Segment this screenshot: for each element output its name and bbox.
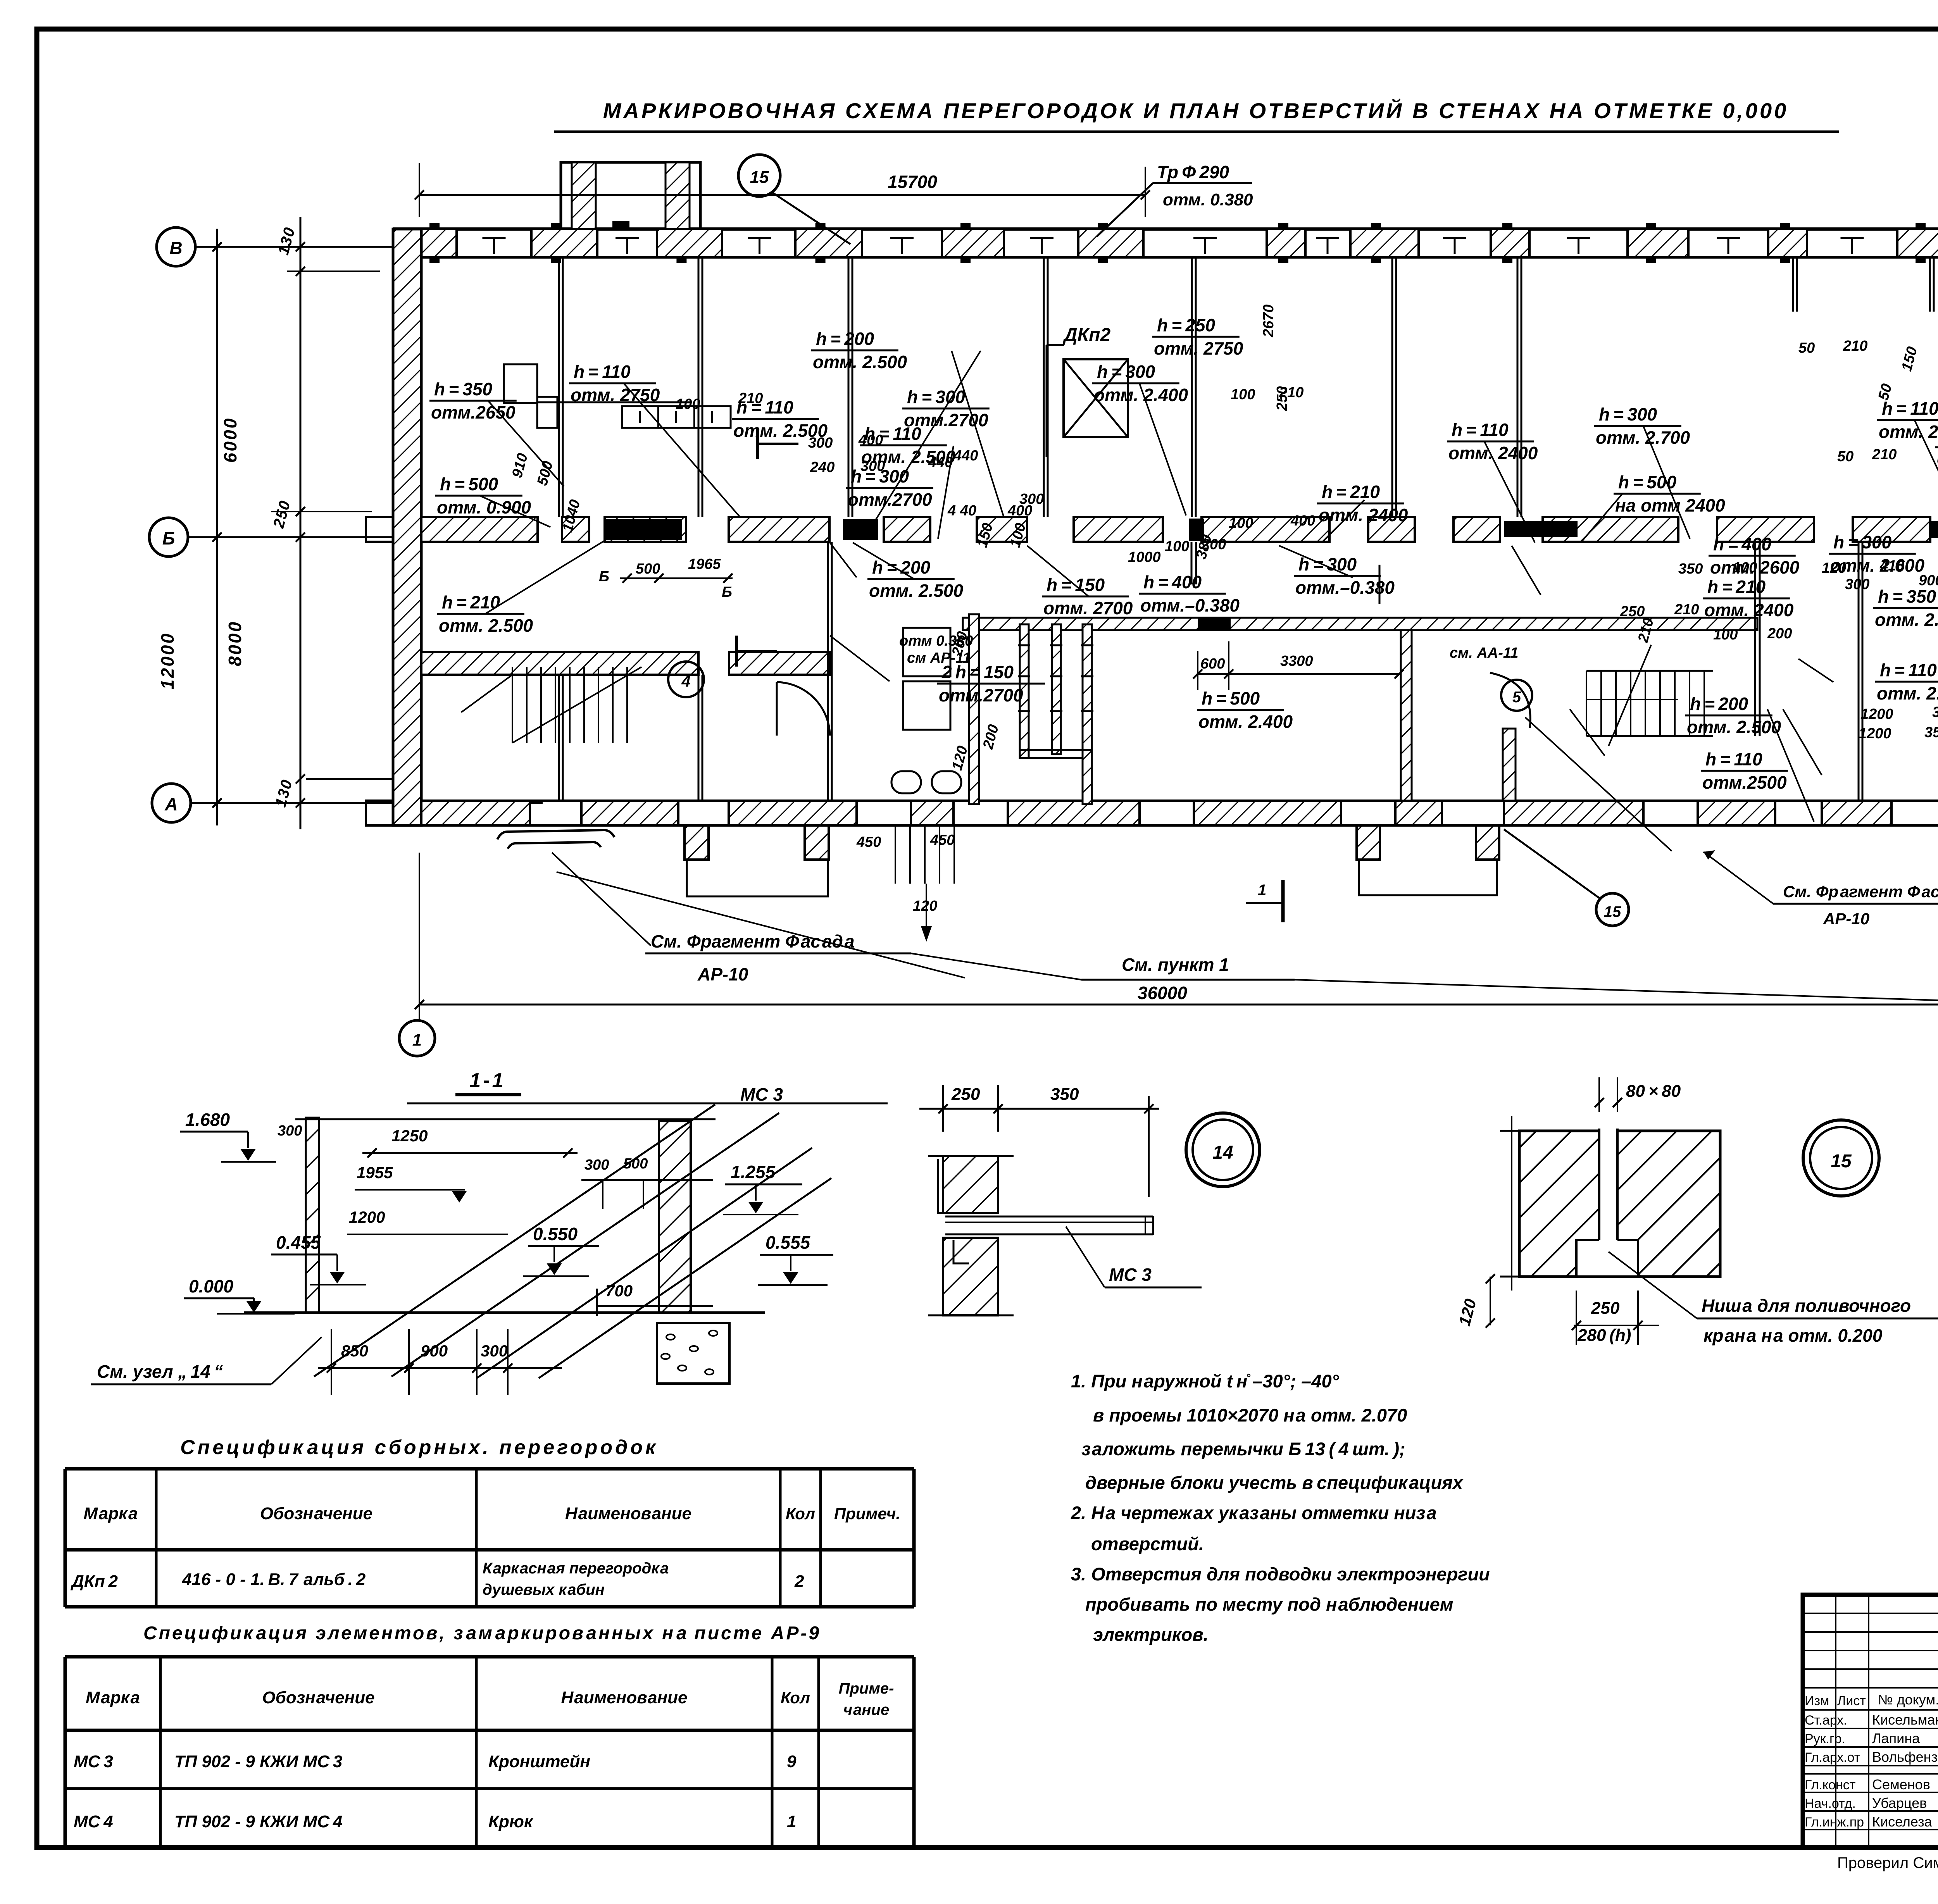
svg-text:на отм 2400: на отм 2400 [1615, 495, 1725, 515]
detail 14 angle clips [938, 1159, 953, 1213]
svg-text:210: 210 [1843, 338, 1867, 354]
svg-text:отм. 2.400: отм. 2.400 [1198, 712, 1293, 732]
wall pier x=1371 [531, 229, 597, 257]
axis circle Б [149, 518, 188, 557]
cabinet row (room 1) [622, 406, 731, 428]
partition stub x3080 [1191, 542, 1193, 584]
svg-text:Киселеза: Киселеза [1872, 1814, 1933, 1830]
left dimension lines [216, 229, 218, 825]
svg-text:см АР-11: см АР-11 [907, 650, 971, 666]
window mullion marks [483, 237, 506, 239]
svg-text:120: 120 [913, 898, 937, 914]
svg-text:отм. 2.700: отм. 2.700 [1596, 427, 1690, 448]
svg-text:0.555: 0.555 [766, 1232, 811, 1253]
svg-text:36000: 36000 [1138, 983, 1187, 1003]
svg-text:заложить перемычки Б 13 ( 4: заложить перемычки Б 13 ( 4 шт. ); [1081, 1439, 1405, 1459]
signature table grid [1803, 1613, 1938, 1614]
svg-text:12000: 12000 [157, 632, 178, 689]
crossed duct box [1064, 359, 1128, 437]
svg-text:700: 700 [605, 1282, 633, 1300]
wall pier x=1078 [418, 229, 457, 257]
svg-text:500: 500 [636, 561, 660, 577]
svg-text:440: 440 [953, 448, 978, 464]
svg-text:отм. 2.500: отм. 2.500 [439, 615, 533, 636]
svg-text:Спецификация элементов, зама: Спецификация элементов, замаркированных … [143, 1623, 821, 1644]
svg-text:МС 3: МС 3 [74, 1752, 113, 1771]
svg-text:h = 110: h = 110 [1880, 660, 1937, 680]
partition stub x3559 [1379, 565, 1381, 604]
svg-text:100: 100 [1713, 627, 1738, 643]
wall pier x=4895 [1897, 229, 1938, 257]
svg-text:Кол: Кол [781, 1689, 810, 1707]
svg-text:Изм: Изм [1805, 1694, 1829, 1708]
axis circle В [157, 227, 195, 266]
svg-text:80 × 80: 80 × 80 [1626, 1082, 1681, 1101]
svg-text:отм. 2.500: отм. 2.500 [869, 581, 964, 601]
svg-text:14: 14 [1212, 1142, 1233, 1163]
svg-text:отм. 2700: отм. 2700 [1043, 598, 1133, 618]
wall pier x=3268 [1267, 229, 1305, 257]
svg-text:отм. 2400: отм. 2400 [1704, 600, 1794, 620]
svg-text:отм. 0.900: отм. 0.900 [437, 497, 531, 517]
svg-text:1250: 1250 [391, 1127, 428, 1145]
entrance porch middle [1357, 825, 1380, 860]
svg-text:280 (h): 280 (h) [1577, 1326, 1631, 1345]
svg-text:3. Отверстия для подводки э: 3. Отверстия для подводки электроэнергии [1071, 1564, 1490, 1584]
circle 15 top [738, 155, 780, 196]
wall pier x=3846 [1491, 229, 1529, 257]
svg-text:АР-10: АР-10 [1823, 910, 1869, 928]
svg-text:15: 15 [750, 168, 769, 187]
svg-text:Б: Б [722, 584, 732, 600]
section mark 1 bottom plan [1281, 880, 1285, 922]
circle 15 bottom [1596, 893, 1629, 926]
svg-text:0.455: 0.455 [276, 1232, 321, 1253]
wall pier x=1695 [657, 229, 722, 257]
svg-text:ТП 902 - 9 КЖИ МС 4: ТП 902 - 9 КЖИ МС 4 [174, 1812, 342, 1831]
svg-text:Обозначение: Обозначение [262, 1688, 374, 1707]
svg-text:МС 3: МС 3 [740, 1084, 783, 1104]
svg-text:350: 350 [1678, 561, 1703, 577]
spec table 1 [65, 1467, 914, 1471]
svg-text:h = 200: h = 200 [816, 329, 874, 349]
left wall stub row Б [366, 517, 393, 542]
svg-text:Гл.инж.пр: Гл.инж.пр [1805, 1815, 1864, 1830]
svg-text:МС 4: МС 4 [74, 1812, 113, 1831]
svg-text:h = 110: h = 110 [1705, 749, 1762, 769]
building left wall [393, 229, 421, 825]
svg-text:см. АА-11: см. АА-11 [1450, 645, 1518, 661]
svg-text:Гл.арх.от: Гл.арх.от [1805, 1750, 1860, 1765]
svg-text:Ст.арх.: Ст.арх. [1805, 1713, 1847, 1728]
svg-text:крана на отм. 0.200: крана на отм. 0.200 [1704, 1325, 1883, 1346]
svg-text:50: 50 [1837, 448, 1854, 465]
svg-text:Марка: Марка [84, 1504, 138, 1523]
svg-text:9: 9 [787, 1752, 797, 1771]
building top wall row В [393, 227, 1938, 231]
svg-text:отм.–0.380: отм.–0.380 [1140, 595, 1240, 615]
svg-text:250: 250 [951, 1085, 980, 1104]
svg-text:100: 100 [676, 396, 700, 412]
svg-text:Нач.отд.: Нач.отд. [1805, 1796, 1856, 1811]
svg-text:100: 100 [1229, 515, 1253, 531]
svg-text:450: 450 [856, 834, 881, 850]
top vestibule protrusion [561, 162, 700, 229]
svg-text:h = 210: h = 210 [1322, 482, 1380, 502]
entrance canopy left [497, 830, 614, 839]
svg-text:№ докум.: № докум. [1878, 1692, 1938, 1708]
svg-text:Примеч.: Примеч. [834, 1504, 900, 1523]
svg-text:350: 350 [1932, 704, 1938, 720]
wall pier x=3484 [1350, 229, 1419, 257]
svg-text:h = 500: h = 500 [1202, 688, 1260, 708]
svg-text:350: 350 [1924, 724, 1938, 741]
svg-text:дверные блоки учесть в спец: дверные блоки учесть в спецификациях [1085, 1472, 1464, 1493]
svg-text:h = 300: h = 300 [1097, 362, 1155, 382]
svg-text:h = 110: h = 110 [574, 362, 631, 382]
partition walls upper band [558, 257, 560, 517]
partition x3614 [1401, 630, 1412, 801]
svg-text:600: 600 [1200, 656, 1225, 672]
svg-text:h = 300: h = 300 [1833, 532, 1892, 552]
svg-text:300: 300 [860, 458, 885, 474]
svg-text:h = 500: h = 500 [440, 474, 498, 494]
svg-text:100: 100 [1165, 538, 1189, 555]
svg-text:240: 240 [810, 459, 835, 476]
svg-text:2. На чертежах указаны отм: 2. На чертежах указаны отметки низа [1071, 1503, 1437, 1523]
title block frame [1803, 1595, 1938, 1847]
detail 15 hatched block [1519, 1131, 1720, 1277]
svg-text:Ниша для поливочного: Ниша для поливочного [1702, 1296, 1911, 1316]
svg-text:Приме-: Приме- [839, 1680, 894, 1697]
blocked openings (filled) in row Б [605, 519, 682, 540]
circle 1 [399, 1020, 435, 1056]
svg-text:Гл.конст: Гл.конст [1805, 1778, 1855, 1792]
wall row А (bottom) [421, 801, 530, 825]
svg-text:А: А [164, 794, 178, 814]
svg-text:отм. 2.500: отм. 2.500 [1687, 717, 1781, 737]
svg-text:300: 300 [278, 1123, 302, 1139]
svg-text:300: 300 [808, 435, 833, 451]
partition near circle5 [1503, 729, 1516, 801]
svg-text:Убарцев: Убарцев [1872, 1795, 1927, 1811]
svg-text:400: 400 [1290, 513, 1315, 529]
svg-text:отм. 2400: отм. 2400 [1319, 505, 1408, 525]
bottom dims 850/900/300 [333, 1358, 550, 1359]
svg-text:Каркасная перегородка: Каркасная перегородка [483, 1560, 669, 1577]
svg-text:1965: 1965 [688, 556, 721, 572]
svg-text:электриков.: электриков. [1093, 1624, 1209, 1645]
svg-text:1-1: 1-1 [469, 1069, 505, 1092]
svg-text:чание: чание [843, 1701, 889, 1718]
svg-text:Семенов: Семенов [1872, 1776, 1930, 1792]
mid wall y1594 right part [963, 618, 1757, 630]
svg-text:отверстий.: отверстий. [1091, 1534, 1204, 1554]
door arc 4 [777, 682, 830, 736]
svg-text:Лапина: Лапина [1872, 1730, 1920, 1746]
stair left [512, 667, 513, 743]
svg-text:4: 4 [681, 672, 690, 690]
stair right [1586, 670, 1713, 672]
svg-text:Обозначение: Обозначение [260, 1504, 372, 1523]
svg-text:h = 200: h = 200 [1690, 694, 1748, 714]
svg-text:Спецификация сборных. перего: Спецификация сборных. перегородок [180, 1436, 658, 1459]
svg-text:отм 0.380: отм 0.380 [899, 633, 973, 649]
leader diagonals bottom [552, 853, 651, 946]
svg-text:200: 200 [1201, 536, 1226, 553]
black junction Б wall x3080 [1189, 519, 1204, 541]
wall row Б [421, 517, 538, 542]
svg-text:300: 300 [585, 1157, 609, 1173]
svg-text:в проемы 1010×2070 на отм.: в проемы 1010×2070 на отм. 2.070 [1093, 1405, 1407, 1425]
svg-text:850: 850 [341, 1342, 368, 1360]
svg-text:Наименование: Наименование [561, 1688, 687, 1707]
1-1 left wall [306, 1118, 319, 1313]
svg-text:отм. 2.500: отм. 2.500 [813, 352, 907, 372]
svg-text:h = 350: h = 350 [434, 379, 493, 399]
svg-text:120: 120 [1822, 560, 1846, 576]
leader diagonals [488, 401, 564, 486]
svg-text:МАРКИРОВОЧНАЯ СХЕМА ПЕРЕГОРО: МАРКИРОВОЧНАЯ СХЕМА ПЕРЕГОРОДОК И ПЛАН О… [603, 98, 1789, 123]
svg-text:100: 100 [1231, 386, 1255, 403]
svg-text:350: 350 [1050, 1085, 1079, 1104]
wall pier x=2782 [1078, 229, 1143, 257]
svg-text:АР-10: АР-10 [697, 964, 748, 984]
svg-text:1: 1 [787, 1812, 796, 1831]
wc stalls [903, 628, 950, 676]
svg-text:См. узел „ 14 “: См. узел „ 14 “ [97, 1361, 223, 1382]
svg-text:отм.2700: отм.2700 [939, 685, 1023, 705]
svg-text:4 40: 4 40 [947, 503, 976, 519]
wall pier x=2430 [942, 229, 1004, 257]
svg-text:h = 400: h = 400 [1143, 572, 1202, 592]
door arc 5 [1490, 673, 1530, 728]
svg-text:Проверил Симановская: Проверил Симановская [1837, 1854, 1938, 1871]
axis circle А [152, 784, 191, 822]
1-1 foundation block [657, 1323, 729, 1384]
svg-text:210: 210 [738, 390, 763, 407]
corridor south wall [421, 652, 698, 675]
svg-text:15: 15 [1604, 903, 1621, 920]
svg-text:отм.2700: отм.2700 [848, 489, 932, 510]
svg-text:50: 50 [1798, 340, 1815, 356]
dim 600/3300 [1198, 673, 1399, 675]
bottom dimension 36000 [419, 1004, 1938, 1006]
svg-text:Крюк: Крюк [488, 1812, 534, 1831]
top dimension 15700 [419, 194, 1145, 196]
svg-text:Б: Б [162, 528, 175, 548]
svg-text:15: 15 [1831, 1151, 1852, 1172]
section mark Я left [756, 428, 759, 459]
partition walls lower band [558, 675, 560, 801]
svg-text:1955: 1955 [357, 1163, 393, 1182]
partition x4534 [1754, 542, 1756, 736]
svg-text:Марка: Марка [86, 1688, 140, 1707]
svg-text:h = 350: h = 350 [1878, 586, 1936, 607]
svg-text:пробивать по месту под наб: пробивать по месту под наблюдением [1085, 1594, 1453, 1615]
1-1 stair diagonals [314, 1104, 715, 1377]
svg-text:1.255: 1.255 [731, 1162, 776, 1182]
detail 14 wall upper [943, 1156, 998, 1213]
svg-text:300: 300 [481, 1342, 508, 1360]
svg-text:1: 1 [1258, 882, 1266, 899]
left wall stub row А [366, 801, 393, 825]
circle 14 [1186, 1113, 1260, 1187]
svg-text:душевых кабин: душевых кабин [483, 1581, 605, 1598]
svg-text:Кол: Кол [786, 1504, 815, 1523]
svg-text:400: 400 [858, 432, 883, 448]
svg-text:отм.2500: отм.2500 [1702, 772, 1787, 793]
svg-text:410: 410 [1879, 558, 1904, 574]
svg-text:0.550: 0.550 [533, 1224, 578, 1244]
svg-text:1: 1 [412, 1030, 422, 1049]
svg-text:416 - 0 - 1. В. 7 альб . 2: 416 - 0 - 1. В. 7 альб . 2 [182, 1570, 366, 1589]
svg-text:h = 250: h = 250 [1157, 315, 1216, 335]
svg-text:450: 450 [930, 832, 955, 848]
svg-text:отм.2650: отм.2650 [431, 402, 516, 422]
wc ovals [891, 771, 921, 793]
svg-text:Рук.гр.: Рук.гр. [1805, 1732, 1845, 1746]
circle 15 detail [1803, 1120, 1879, 1196]
svg-text:8000: 8000 [225, 620, 245, 666]
svg-text:h = 400: h = 400 [1713, 534, 1772, 554]
svg-text:1000: 1000 [1128, 549, 1161, 565]
svg-text:См. Фрагмент Фасада: См. Фрагмент Фасада [1783, 882, 1938, 901]
svg-text:15700: 15700 [888, 172, 937, 192]
svg-text:6000: 6000 [220, 417, 240, 463]
svg-text:ДКп 2: ДКп 2 [70, 1572, 118, 1591]
wall pier x=4199 [1628, 229, 1688, 257]
svg-text:Кисельман: Кисельман [1872, 1712, 1938, 1728]
shower cubicle block [969, 614, 979, 804]
wall pier x=4562 [1768, 229, 1807, 257]
svg-text:200: 200 [1767, 625, 1792, 642]
svg-text:1.680: 1.680 [185, 1110, 230, 1130]
svg-text:2: 2 [794, 1572, 804, 1591]
wall pier x=2052 [795, 229, 862, 257]
svg-text:Вольфензон: Вольфензон [1872, 1749, 1938, 1765]
svg-text:1200: 1200 [1859, 725, 1891, 742]
svg-text:Тр Ф 290: Тр Ф 290 [1157, 162, 1229, 182]
detail 14 wall lower [943, 1238, 998, 1315]
svg-text:отм. 2.400: отм. 2.400 [1879, 422, 1938, 442]
circle 4 door leader [668, 662, 704, 697]
circle 5 door leader [1501, 680, 1532, 711]
svg-text:2670: 2670 [1260, 304, 1277, 338]
svg-text:1200: 1200 [349, 1208, 385, 1226]
svg-text:400: 400 [1007, 503, 1032, 519]
svg-text:210: 210 [1674, 601, 1699, 618]
svg-text:h = 500: h = 500 [1618, 472, 1677, 492]
svg-text:100: 100 [1733, 560, 1757, 576]
svg-text:См. пункт 1: См. пункт 1 [1122, 955, 1229, 975]
svg-text:Б: Б [599, 569, 609, 585]
svg-text:500: 500 [623, 1156, 648, 1172]
svg-text:900: 900 [421, 1342, 448, 1360]
svg-text:210: 210 [1872, 446, 1897, 463]
axis leader lines [195, 246, 393, 248]
svg-text:250: 250 [1274, 386, 1290, 411]
svg-text:250: 250 [1591, 1299, 1620, 1318]
svg-text:h = 200: h = 200 [872, 557, 931, 577]
room partition line above cabinets [537, 401, 692, 403]
drain stub below wall [895, 825, 896, 884]
svg-text:Лист: Лист [1837, 1694, 1866, 1708]
svg-text:h = 300: h = 300 [1599, 404, 1657, 424]
svg-text:В: В [169, 238, 182, 258]
svg-text:300: 300 [1845, 576, 1869, 593]
spec table 2 [65, 1655, 914, 1659]
svg-text:отм. 2750: отм. 2750 [571, 385, 660, 405]
svg-text:отм. 2750: отм. 2750 [1154, 338, 1243, 358]
svg-text:отм. 2.500: отм. 2.500 [1877, 683, 1938, 703]
svg-text:ТП 902 - 9 КЖИ МС 3: ТП 902 - 9 КЖИ МС 3 [174, 1752, 342, 1771]
detail 14 shelf [945, 1216, 1153, 1218]
svg-text:отм. 2.400: отм. 2.400 [1875, 610, 1938, 630]
1-1 floor line [244, 1311, 765, 1314]
svg-text:5: 5 [1512, 689, 1521, 706]
svg-text:Наименование: Наименование [565, 1504, 691, 1523]
entrance porch left [685, 825, 709, 860]
svg-text:отм. 0.380: отм. 0.380 [1163, 190, 1253, 209]
svg-text:ДКп2: ДКп2 [1062, 325, 1110, 345]
svg-text:h = 210: h = 210 [1707, 577, 1766, 597]
1-1 right wall [659, 1121, 691, 1313]
svg-text:Кронштейн: Кронштейн [488, 1752, 590, 1771]
svg-text:h = 110: h = 110 [1452, 420, 1509, 440]
svg-text:0.000: 0.000 [189, 1276, 234, 1296]
svg-text:отм.–0.380: отм.–0.380 [1295, 577, 1395, 598]
dim line 500/1965 [620, 577, 733, 579]
svg-text:МС 3: МС 3 [1109, 1265, 1152, 1285]
svg-text:3300: 3300 [1280, 653, 1313, 669]
svg-text:1200: 1200 [1860, 706, 1893, 722]
svg-text:1. При наружной t н̊ –30: 1. При наружной t н̊ –30°; –40° [1071, 1371, 1340, 1391]
svg-text:900: 900 [1919, 572, 1938, 589]
